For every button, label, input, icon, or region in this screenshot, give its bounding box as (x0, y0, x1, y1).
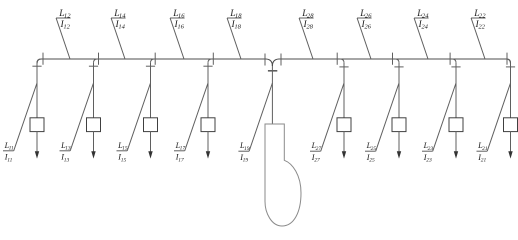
main feeder bus right half (272, 59, 510, 66)
tap hook (branch 11 connection) (37, 59, 41, 63)
label L12/I12 (line section) (56, 9, 71, 59)
label L24/I24 (line section) (414, 9, 429, 59)
svg-text:I27: I27 (311, 153, 320, 164)
svg-text:L17: L17 (175, 141, 186, 152)
load box 15 (144, 118, 158, 132)
load box 25 (392, 118, 406, 132)
branch drop wire 25 (398, 63, 400, 118)
load box 23 (449, 118, 463, 132)
load arrow 23 (454, 132, 458, 159)
label L15/I15 (branch line) (117, 83, 151, 163)
tap hook (branch 25 connection) (395, 59, 399, 63)
svg-text:L21: L21 (477, 141, 488, 152)
svg-text:I18: I18 (231, 20, 242, 31)
pole tick node 1 (42, 53, 44, 65)
fuse tick on branch 21 (506, 66, 515, 68)
pole tick node 8 (506, 53, 508, 65)
pole tick node 3 (154, 53, 156, 65)
fuse tick on branch 13 (89, 65, 98, 67)
load box 17 (201, 118, 215, 132)
load arrow 25 (397, 132, 401, 159)
load box 13 (87, 118, 101, 132)
label L28/I28 (line section) (299, 9, 314, 59)
load arrow 17 (206, 132, 210, 159)
svg-text:I25: I25 (366, 153, 375, 164)
tap hook (branch 21 connection) (507, 59, 511, 63)
svg-text:I11: I11 (4, 153, 13, 164)
load arrow 21 (508, 132, 512, 159)
svg-text:I16: I16 (174, 20, 185, 31)
load box 27 (337, 118, 351, 132)
main feeder bus left half (37, 59, 272, 66)
tap hook (branch 17 connection) (208, 59, 212, 63)
branch drop wire 27 (343, 63, 345, 118)
branch drop wire 11 (36, 63, 38, 118)
label L17/I17 (branch line) (174, 83, 208, 163)
svg-text:L27: L27 (311, 141, 322, 152)
svg-text:I14: I14 (115, 20, 126, 31)
transformer station outline (265, 124, 301, 226)
label L22/I22 (line section) (471, 9, 486, 59)
load arrow 27 (342, 132, 346, 159)
label L19/I19 (branch line) (238, 83, 272, 164)
label L23/I23 (branch line) (422, 83, 456, 164)
label L27/I27 (branch line) (310, 83, 344, 164)
fuse tick on branch 27 (339, 66, 348, 68)
branch drop wire 15 (150, 63, 152, 118)
load arrow 13 (91, 132, 95, 159)
feed riser wire from transformer (271, 66, 273, 124)
tap hook (branch 27 connection) (340, 59, 344, 63)
svg-text:I19: I19 (239, 153, 248, 164)
svg-text:I21: I21 (477, 153, 486, 164)
svg-text:I15: I15 (117, 153, 126, 164)
fuse tick on branch 25 (394, 66, 403, 68)
pole tick node 7 (449, 53, 451, 65)
label L14/I14 (line section) (111, 9, 126, 59)
load arrow 11 (35, 132, 39, 159)
label L26/I26 (line section) (357, 9, 372, 59)
svg-text:I12: I12 (60, 20, 71, 31)
svg-text:L23: L23 (423, 141, 434, 152)
load box 11 (30, 118, 44, 132)
svg-text:I26: I26 (361, 20, 372, 31)
svg-text:I17: I17 (175, 153, 184, 164)
load arrow 15 (148, 132, 152, 159)
svg-text:I24: I24 (418, 20, 429, 31)
pole tick node 6 (392, 53, 394, 65)
fuse tick on branch 15 (146, 65, 155, 67)
label L16/I16 (line section) (170, 9, 185, 59)
label L11/I11 (branch line) (3, 83, 37, 163)
pole tick node 2 (98, 53, 100, 65)
svg-text:I22: I22 (475, 20, 486, 31)
branch drop wire 13 (93, 63, 95, 118)
label L21/I21 (branch line) (477, 83, 511, 164)
branch drop wire 21 (510, 63, 512, 118)
label L18/I18 (line section) (227, 9, 242, 59)
svg-text:L15: L15 (117, 141, 128, 152)
fuse tick on branch 11 (32, 65, 41, 67)
main fuse tick at feed point (268, 70, 277, 72)
svg-text:I23: I23 (423, 153, 432, 164)
svg-text:L25: L25 (366, 141, 377, 152)
fuse tick on branch 17 (203, 65, 212, 67)
pole tick node 5 (336, 53, 338, 65)
load box 21 (504, 118, 518, 132)
pole tick left of feed point (264, 54, 266, 66)
svg-text:L19: L19 (239, 141, 250, 152)
svg-text:I13: I13 (60, 153, 69, 164)
tap hook (branch 23 connection) (452, 59, 456, 63)
pole tick node 4 (212, 53, 214, 65)
label L13/I13 (branch line) (60, 83, 94, 163)
tap hook (branch 13 connection) (94, 59, 98, 63)
label L25/I25 (branch line) (365, 83, 399, 164)
svg-text:I28: I28 (303, 20, 314, 31)
svg-text:L11: L11 (4, 141, 14, 152)
tap hook (branch 15 connection) (151, 59, 155, 63)
branch drop wire 23 (455, 63, 457, 118)
branch drop wire 17 (207, 63, 209, 118)
pole tick right of feed point (280, 54, 282, 66)
svg-text:L13: L13 (60, 141, 71, 152)
fuse tick on branch 23 (451, 66, 460, 68)
